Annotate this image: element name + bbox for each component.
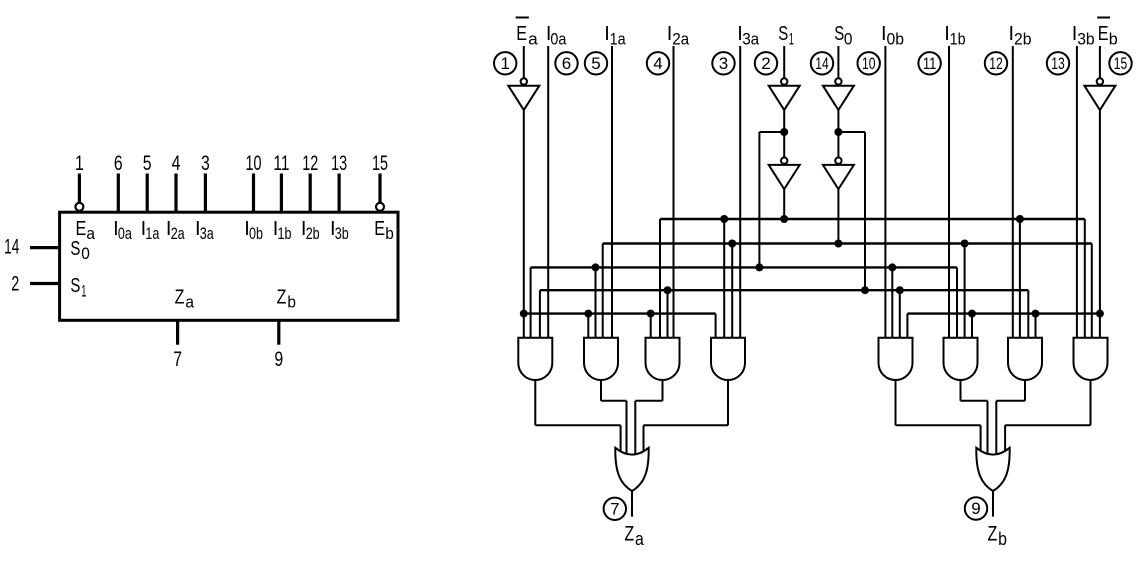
AND gate A1 (Ea&I0a&S1bar&S0bar) [518, 338, 552, 380]
pin number circle 12 [985, 52, 1007, 74]
wire gate B4 output across [1005, 424, 1090, 426]
wire S0 to gate A4 input [731, 244, 733, 338]
wire Eb input to inverter [1099, 46, 1101, 78]
block pin 15 lead [378, 174, 381, 203]
junction S1 to gate B3 [1016, 215, 1024, 223]
wire enable-a distribution (net Ea-bar) [524, 312, 716, 314]
AND gate B2 (Eb&I1b&S1bar&S0) [944, 338, 978, 380]
svg-text:12: 12 [989, 55, 1003, 73]
svg-text:Z: Z [988, 523, 998, 546]
junction S0-true source [834, 240, 842, 248]
wire I2a down to gate A3 [673, 46, 675, 338]
junction Eb-bar to gate B2 [968, 310, 976, 318]
svg-text:12: 12 [302, 152, 318, 175]
AND gate B1 (Eb&I0b&S1bar&S0bar) [879, 338, 913, 380]
AND gate B3 (Eb&I2b&S1&S0bar) [1008, 338, 1042, 380]
svg-text:b: b [998, 529, 1007, 549]
svg-text:a: a [528, 29, 538, 48]
svg-text:0: 0 [844, 29, 853, 48]
svg-text:3a: 3a [200, 224, 214, 243]
svg-text:4: 4 [653, 54, 662, 73]
wire S1-true distribution (net S1) [660, 218, 1085, 220]
wire gate B1 output across [896, 424, 981, 426]
overline of Ea label [516, 17, 529, 19]
svg-text:3b: 3b [1077, 29, 1095, 48]
wire gate A1 output into OR [620, 425, 622, 453]
pin number circle 15 [1109, 52, 1131, 74]
junction S0bar to gate A3 [664, 286, 672, 294]
wire S0 input to first inverter [837, 46, 839, 78]
junction enable-b distribution [1096, 310, 1104, 318]
svg-text:2b: 2b [306, 224, 320, 243]
wire gate A4 output across [644, 424, 729, 426]
svg-text:a: a [635, 529, 645, 549]
wire S1bar to gate A1 input [530, 267, 532, 337]
svg-text:9: 9 [274, 348, 283, 371]
OR gate for output Zb [976, 448, 1009, 491]
wire gate B3 output down [1024, 380, 1026, 401]
block pin 11 lead [280, 174, 283, 213]
wire S0-bar branch right [838, 131, 865, 133]
svg-text:10: 10 [246, 152, 262, 175]
wire S1 to gate A3 input [659, 219, 661, 338]
svg-text:S: S [778, 23, 788, 45]
wire S1 input to first inverter [783, 46, 785, 78]
svg-text:14: 14 [4, 236, 19, 259]
junction S1-true source [780, 215, 788, 223]
svg-text:0a: 0a [118, 224, 132, 243]
block pin 15 inversion bubble [376, 203, 384, 211]
wire I1b down to gate B2 [948, 46, 950, 338]
wire gate A4 output down [727, 380, 729, 425]
overline of Eb label [1097, 17, 1110, 19]
wire gate A2 output across [601, 400, 627, 402]
inverter U2a on S1 [781, 78, 787, 84]
svg-text:4: 4 [172, 152, 181, 175]
pin number circle 10 [858, 52, 880, 74]
AND gate B4 (Eb&I3b&S1&S0) [1074, 338, 1108, 380]
wire Ea input to inverter [523, 46, 525, 78]
svg-text:5: 5 [143, 152, 152, 175]
OR gate for output Za [615, 448, 648, 491]
block pin 2 lead (S1) [30, 282, 61, 285]
pin number circle 9 (Zb) [965, 497, 987, 519]
pin number circle 13 [1047, 52, 1069, 74]
pin number circle 6 [555, 52, 577, 74]
wire gate A1 output down [534, 380, 536, 425]
svg-text:1a: 1a [145, 224, 159, 243]
wire S1bar to gate A2 input [595, 267, 597, 337]
wire gate B4 output into OR [1004, 425, 1006, 452]
svg-text:1: 1 [75, 152, 84, 175]
inverter U3a on S0 [835, 78, 841, 84]
svg-text:3: 3 [201, 152, 210, 175]
junction S0bar source [861, 286, 869, 294]
svg-text:3b: 3b [335, 224, 349, 243]
junction Ea-bar to gate A2 [584, 310, 592, 318]
wire gate A2 output into OR [626, 401, 628, 457]
wire S1-true down to distribution [783, 189, 785, 219]
svg-text:7: 7 [610, 500, 619, 519]
svg-text:0b: 0b [249, 224, 263, 243]
block pin 9 lead (Zb) [277, 320, 280, 344]
svg-text:a: a [185, 293, 194, 312]
AND gate A2 (Ea&I1a&S1bar&S0) [584, 338, 618, 380]
svg-text:10: 10 [862, 55, 876, 73]
svg-text:1: 1 [789, 29, 794, 48]
wire S1-bar distribution (net S1bar) [531, 266, 957, 268]
pin number circle 3 [712, 52, 734, 74]
wire I3b down to gate B4 [1076, 46, 1078, 338]
pin number circle 2 [755, 52, 777, 74]
svg-text:3: 3 [719, 54, 728, 73]
svg-text:1b: 1b [278, 224, 292, 243]
wire Za output [631, 491, 633, 517]
wire gate A3 output down [662, 380, 664, 401]
svg-text:13: 13 [331, 152, 347, 175]
svg-text:0a: 0a [550, 29, 566, 48]
svg-text:6: 6 [562, 54, 571, 73]
wire gate A3 output across [635, 400, 662, 402]
wire gate B1 output into OR [980, 425, 982, 453]
wire gate B1 output down [895, 380, 897, 425]
svg-text:Z: Z [277, 286, 287, 308]
wire S0-bar distribution (net S0bar) [540, 289, 1028, 291]
AND gate A3 (Ea&I2a&S1&S0bar) [646, 338, 680, 380]
wire S1-bar vertical drop [758, 132, 760, 267]
svg-text:1a: 1a [610, 29, 626, 48]
wire I3a down to gate A4 [739, 46, 741, 338]
wire S0 to gate B4 input [1091, 244, 1093, 338]
svg-text:6: 6 [114, 152, 123, 175]
block pin 10 lead [252, 174, 255, 213]
wire Eb-bar to gate B3 input [1035, 314, 1037, 338]
wire gate B3 output across [996, 400, 1025, 402]
svg-text:7: 7 [173, 348, 182, 371]
junction S1-bar branch [780, 128, 788, 136]
svg-text:E: E [76, 218, 87, 240]
pin number circle 11 [918, 52, 940, 74]
block pin 13 lead [338, 174, 341, 213]
svg-text:E: E [1098, 23, 1109, 45]
pin number circle 1 [494, 52, 516, 74]
svg-text:11: 11 [273, 152, 289, 175]
block pin 3 lead [204, 174, 207, 213]
wire S0-bar between inverters [837, 110, 839, 158]
svg-text:1: 1 [500, 54, 509, 73]
wire S0-true distribution (net S0) [603, 242, 1092, 244]
svg-text:11: 11 [923, 55, 937, 73]
wire I1a down to gate A2 [611, 46, 613, 338]
wire gate A3 output into OR [634, 401, 636, 458]
svg-text:Z: Z [175, 286, 185, 308]
junction S1 to gate A4 [720, 215, 728, 223]
wire gate A4 output into OR [643, 425, 645, 452]
svg-text:a: a [86, 224, 95, 243]
wire Eb-bar to gate B2 input [971, 314, 973, 338]
svg-text:S: S [70, 238, 80, 260]
wire S0 to gate B2 input [964, 244, 966, 338]
wire gate A2 output down [600, 380, 602, 401]
wire S1 to gate B3 input [1019, 219, 1021, 338]
junction Eb-bar to gate B3 [1032, 310, 1040, 318]
block pin 1 lead [78, 174, 81, 203]
wire Eb-bar to gate B1 input [906, 314, 908, 338]
wire S0bar to gate B3 input [1027, 290, 1029, 338]
junction S1bar to gate A2 [592, 263, 600, 271]
wire S1 to gate B4 input [1084, 219, 1086, 338]
block pin 4 lead [174, 174, 177, 213]
wire gate B3 output into OR [995, 401, 997, 458]
wire S0bar to gate A3 input [667, 290, 669, 338]
wire gate A1 output across [535, 424, 620, 426]
wire gate B4 output down [1090, 380, 1092, 425]
wire I2b down to gate B3 [1012, 46, 1014, 338]
svg-text:E: E [516, 23, 527, 45]
junction S0bar to gate B1 [896, 286, 904, 294]
junction S1bar to gate B1 [888, 263, 896, 271]
wire Ea-bar to gate A2 input [587, 314, 589, 338]
block pin 5 lead [146, 174, 149, 213]
pin number circle 14 [811, 52, 833, 74]
wire I0a down to gate A1 [547, 46, 549, 338]
svg-text:b: b [287, 293, 296, 312]
svg-text:Z: Z [624, 523, 634, 546]
svg-text:S: S [70, 275, 80, 297]
wire S0-true down to distribution [837, 189, 839, 243]
inverter on Eb (active-low enable b) [1097, 78, 1103, 84]
wire S0 to gate A2 input [602, 244, 604, 338]
wire S0bar to gate A1 input [539, 290, 541, 338]
wire I0b down to gate B1 [884, 46, 886, 338]
wire S1bar to gate B1 input [891, 267, 893, 337]
wire S1bar to gate B2 input [956, 267, 958, 337]
svg-text:1b: 1b [950, 29, 966, 48]
svg-text:13: 13 [1051, 55, 1065, 73]
wire Eb-bar (enable b) down to gate B4 [1099, 110, 1101, 338]
svg-text:0: 0 [81, 244, 90, 263]
svg-text:5: 5 [591, 54, 600, 73]
pin number circle 5 [585, 52, 607, 74]
svg-text:15: 15 [372, 152, 388, 175]
block pin 14 lead (S0) [30, 246, 61, 249]
junction enable-a distribution [520, 310, 528, 318]
IC block symbol body [60, 212, 398, 320]
svg-text:2b: 2b [1014, 29, 1032, 48]
svg-text:3a: 3a [742, 29, 759, 48]
inverter U3b on S0 (buffered true) [835, 158, 841, 164]
wire S1-bar between inverters [783, 110, 785, 158]
svg-text:E: E [374, 218, 385, 240]
wire Zb output [992, 491, 994, 517]
svg-text:14: 14 [815, 55, 829, 73]
wire Ea-bar (enable a) down to gate A1 [523, 110, 525, 338]
wire S1-bar branch left [759, 131, 784, 133]
junction S0 to gate B2 [961, 240, 969, 248]
pin number circle 7 (Za) [604, 498, 626, 520]
svg-text:0b: 0b [887, 29, 905, 48]
svg-text:b: b [385, 224, 394, 243]
junction Ea-bar to gate A3 [647, 310, 655, 318]
block pin 7 lead (Za) [176, 320, 179, 344]
svg-text:1: 1 [81, 281, 86, 300]
wire enable-b distribution (net Eb-bar) [907, 312, 1100, 314]
wire Ea-bar to gate A3 input [650, 314, 652, 338]
block pin 12 lead [309, 174, 312, 213]
junction S1bar source [755, 263, 763, 271]
wire S0bar to gate B1 input [899, 290, 901, 338]
block pin 1 inversion bubble [75, 203, 83, 211]
wire S1 to gate A4 input [723, 219, 725, 338]
svg-text:b: b [1109, 29, 1118, 48]
pin number circle 4 [647, 52, 669, 74]
svg-text:2: 2 [761, 54, 770, 73]
wire gate B2 output across [961, 400, 988, 402]
svg-text:9: 9 [971, 499, 980, 518]
inverter U2b on S1 (buffered true) [781, 158, 787, 164]
wire gate B2 output down [960, 380, 962, 401]
svg-text:S: S [834, 23, 844, 45]
junction S0-bar branch [834, 128, 842, 136]
junction S0 to gate A4 [728, 240, 736, 248]
svg-text:2a: 2a [672, 29, 689, 48]
wire S0-bar vertical drop [864, 132, 866, 290]
svg-text:2a: 2a [171, 224, 185, 243]
wire Ea-bar to gate A4 input [715, 314, 717, 338]
AND gate A4 (Ea&I3a&S1&S0) [711, 338, 745, 380]
wire gate B2 output into OR [987, 401, 989, 457]
block pin 6 lead [117, 174, 120, 213]
inverter on Ea (active-low enable a) [521, 78, 527, 84]
svg-text:15: 15 [1114, 55, 1128, 73]
svg-text:2: 2 [11, 273, 19, 296]
